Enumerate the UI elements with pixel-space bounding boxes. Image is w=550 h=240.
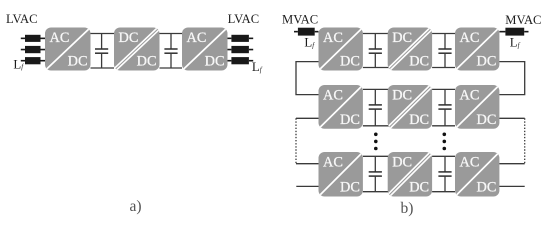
svg-text:DC: DC (205, 54, 225, 70)
converter U6 AC/DC row1 (453, 26, 501, 73)
svg-text:DC: DC (477, 112, 497, 128)
wire series right row1-row2 (499, 62, 524, 95)
inductor Lf b-left (294, 28, 319, 36)
svg-text:DC: DC (340, 112, 360, 128)
wire dc bottom rail b2-1 (363, 125, 393, 127)
wire row3 bottom-right stub (499, 185, 524, 187)
inductor Lf a-right-1 (228, 35, 254, 42)
svg-text:DC: DC (137, 54, 157, 70)
converter U10 AC/DC row3 (317, 150, 365, 199)
capacitor C1 (95, 34, 108, 69)
wire dc bottom rail b3-2 (432, 191, 455, 193)
wire row3 top-left stub (296, 163, 319, 165)
converter U7 AC/DC row2 (317, 83, 365, 131)
converter U1 AC/DC (43, 26, 93, 73)
converter U11 DC/DC row3 (386, 152, 434, 197)
svg-text:Lf: Lf (252, 60, 263, 74)
converter U9 AC/DC row2 (453, 83, 501, 131)
inductor Lf b-right (499, 28, 528, 36)
svg-text:Lf: Lf (510, 36, 521, 50)
svg-text:LVAC: LVAC (228, 12, 260, 26)
capacitor C4 (438, 34, 451, 68)
capacitor C7 (369, 156, 382, 191)
svg-text:AC: AC (460, 30, 480, 46)
wire dc bottom rail b1-2 (432, 67, 455, 69)
svg-text:DC: DC (409, 54, 429, 70)
svg-text:LVAC: LVAC (6, 12, 38, 26)
svg-text:DC: DC (392, 30, 412, 46)
wire dc bottom rail b1-1 (363, 67, 393, 69)
converter U8 DC/DC row2 (386, 85, 434, 129)
wire dotted left continuation (295, 118, 297, 163)
capacitor C8 (438, 156, 451, 191)
svg-text:a): a) (130, 198, 142, 215)
converter U12 AC/DC row3 (453, 150, 501, 199)
svg-text:DC: DC (409, 180, 429, 196)
wire dotted right continuation (524, 118, 526, 163)
svg-text:AC: AC (460, 155, 480, 171)
wire dc bottom rail b2-2 (432, 125, 455, 127)
wire dc top rail b1-1 (363, 33, 393, 35)
wire row3 bottom-left stub (296, 185, 318, 187)
svg-text:DC: DC (340, 180, 360, 196)
svg-text:DC: DC (477, 54, 497, 70)
wire dc bottom rail a1 (91, 67, 115, 69)
capacitor C3 (369, 34, 382, 68)
ellipsis dots right column (443, 133, 447, 151)
inductor Lf a-right-3 (228, 57, 254, 64)
svg-text:MVAC: MVAC (505, 13, 541, 27)
wire dc top rail a2 (160, 33, 183, 35)
svg-text:DC: DC (392, 88, 412, 104)
converter U2 DC/DC (112, 28, 161, 71)
wire row3 top-right stub (499, 163, 524, 165)
capacitor C6 (438, 89, 451, 125)
wire dc top rail a1 (91, 33, 115, 35)
svg-text:DC: DC (409, 112, 429, 128)
wire dc top rail b1-2 (432, 33, 455, 35)
svg-text:DC: DC (340, 54, 360, 70)
svg-text:AC: AC (323, 30, 343, 46)
capacitor C2 (164, 34, 177, 69)
svg-text:b): b) (401, 200, 414, 217)
capacitor C5 (369, 89, 382, 125)
svg-text:AC: AC (50, 30, 70, 46)
wire row2 bottom-left stub (296, 117, 319, 119)
svg-text:DC: DC (119, 30, 139, 46)
ellipsis dots left column (374, 133, 378, 151)
svg-text:Lf: Lf (304, 36, 315, 50)
wire dc top rail b3-1 (363, 155, 393, 157)
svg-text:Lf: Lf (13, 57, 24, 71)
wire dc top rail b2-2 (432, 88, 455, 90)
wire dc top rail b3-2 (432, 155, 455, 157)
converter U4 AC/DC row1 (317, 26, 365, 73)
svg-text:MVAC: MVAC (282, 13, 318, 27)
wire dc top rail b2-1 (363, 88, 393, 90)
wire row2 bottom-right stub (499, 117, 524, 119)
svg-text:DC: DC (68, 54, 88, 70)
inductor Lf a-right-2 (228, 46, 254, 53)
svg-text:AC: AC (323, 88, 343, 104)
svg-text:DC: DC (392, 155, 412, 171)
wire series left row1-row2 (296, 62, 319, 95)
inductor Lf a-left-3 (21, 57, 45, 64)
svg-text:DC: DC (477, 180, 497, 196)
svg-text:AC: AC (460, 88, 480, 104)
wire dc bottom rail b3-1 (363, 191, 393, 193)
converter U5 DC/DC row1 (386, 28, 434, 71)
inductor Lf a-left-1 (21, 35, 45, 42)
wire dc bottom rail a2 (160, 67, 183, 69)
svg-text:AC: AC (187, 30, 207, 46)
converter U3 AC/DC (180, 26, 230, 73)
inductor Lf a-left-2 (21, 46, 45, 53)
svg-text:AC: AC (323, 155, 343, 171)
